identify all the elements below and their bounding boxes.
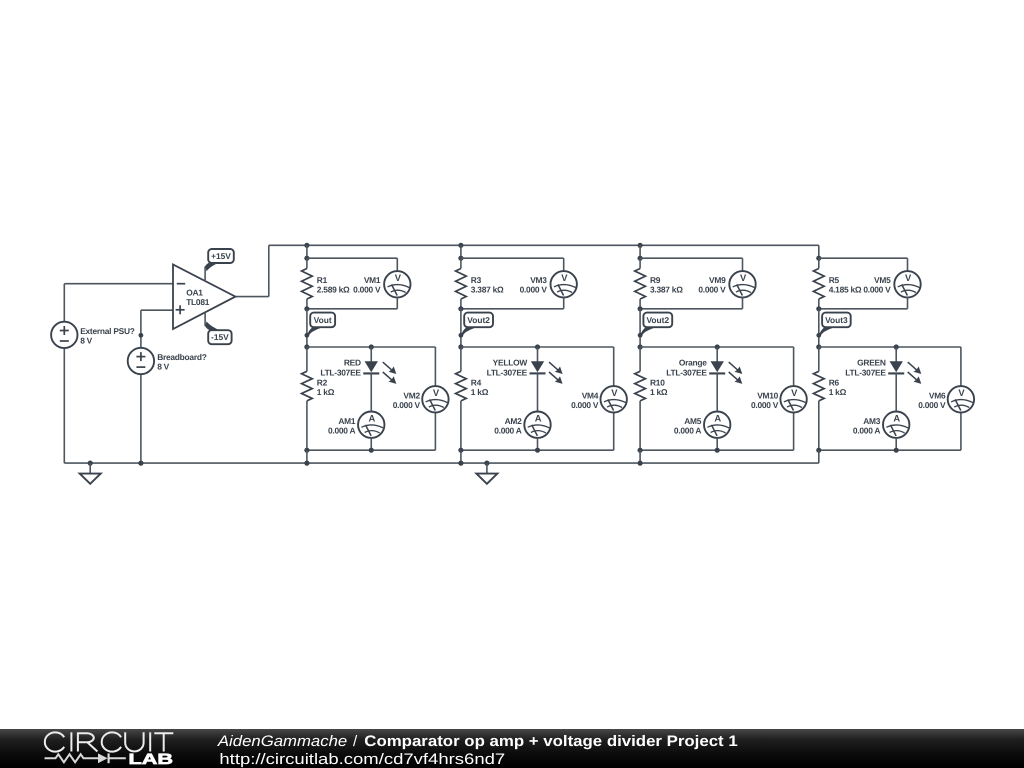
svg-text:V: V [958,387,965,398]
label AM3 [853,416,881,436]
svg-text:0.000 V: 0.000 V [918,400,946,410]
label LED block1 [320,358,361,378]
svg-text:VM10: VM10 [757,390,778,400]
svg-text:TL081: TL081 [186,297,210,307]
label VM10 [751,390,779,410]
resistor R1 [302,258,313,309]
svg-text:GREEN: GREEN [857,358,886,368]
svg-text:4.185 kΩ: 4.185 kΩ [829,285,862,295]
wire breadboard branch lower [140,374,142,463]
label AM2 [494,416,522,436]
logo LAB word [129,751,174,768]
wire block3 vm-loop bottom [638,297,743,311]
svg-text:Comparator op amp + voltage di: Comparator op amp + voltage divider Proj… [364,733,738,750]
label LED block4 [845,358,886,378]
ammeter AM2 [524,412,550,438]
ammeter AM3 [883,412,909,438]
svg-text:LTL-307EE: LTL-307EE [320,367,361,377]
wire block2 row2 top rail [461,344,614,349]
wire block3 row2 bottom rail [638,448,794,453]
label R10 [650,377,668,397]
wire block4 row2 bottom rail [816,448,961,453]
voltmeter VM1 [384,271,410,297]
svg-text:2.589 kΩ: 2.589 kΩ [317,285,350,295]
svg-text:VM2: VM2 [403,390,420,400]
wire block1 vm-loop bottom [304,297,397,311]
wire block1 am bottom [370,438,372,451]
junction dots left [138,461,143,466]
svg-text:A: A [368,413,375,424]
label OA1 [186,288,210,308]
svg-text:Vout: Vout [314,315,332,325]
wire block3 am bottom [716,438,718,451]
svg-text:R4: R4 [471,377,482,387]
svg-text:3.387 kΩ: 3.387 kΩ [650,285,683,295]
svg-text:VM4: VM4 [582,390,599,400]
voltmeter VM9 [729,271,755,297]
svg-text:V: V [740,272,747,283]
svg-text:1 kΩ: 1 kΩ [829,387,847,397]
wire inverting input [64,283,173,285]
resistor R5 [813,258,824,309]
wire block2 mid [459,309,464,347]
svg-text:R10: R10 [650,377,665,387]
svg-text:8 V: 8 V [157,362,169,372]
svg-text:Orange: Orange [679,358,707,368]
label R6 [829,377,847,397]
label VM4 [571,390,599,410]
svg-text:RED: RED [344,358,361,368]
wire block1 row2 bottom rail [304,448,435,453]
wire block3 to bottom rail [638,450,643,466]
svg-text:A: A [893,413,900,424]
svg-text:LTL-307EE: LTL-307EE [845,367,886,377]
svg-text:3.387 kΩ: 3.387 kΩ [471,285,504,295]
LED YELLOW LTL-307EE block2 [530,347,563,412]
wire block4 to bottom rail [818,450,820,463]
svg-text:R5: R5 [829,275,840,285]
wire block4 vm-loop top [819,258,908,271]
title line [217,733,739,750]
svg-text:0.000 A: 0.000 A [494,426,521,436]
wire bottom rail [64,462,819,464]
wire block4 vm-loop bottom [816,297,907,311]
svg-text:V: V [791,387,798,398]
LED GREEN LTL-307EE block4 [888,347,921,412]
label R4 [471,377,489,397]
voltmeter VM5 [894,271,920,297]
wire block1 vm-loop top [307,258,397,271]
wire op-amp output to top rail [235,245,268,296]
node block1 top rail [304,243,309,248]
op-amp V+ pin [204,267,206,282]
logo CIRCUIT word [45,732,174,751]
wire block4 drop [816,245,821,261]
svg-text:Vout2: Vout2 [646,315,669,325]
wire block3 mid [638,309,643,347]
wire block3 row2 top rail [640,344,794,349]
voltmeter VM10 branch [793,347,795,450]
svg-text:8 V: 8 V [80,336,92,346]
label VM2 [393,390,421,410]
svg-text:1 kΩ: 1 kΩ [650,387,668,397]
svg-text:VM9: VM9 [709,275,726,285]
ammeter AM1 [358,412,384,438]
resistor R9 [635,258,646,309]
svg-text:V: V [395,272,402,283]
net flag Vout block1 [307,313,335,337]
wire block2 to bottom rail [458,450,463,466]
svg-text:Vout2: Vout2 [467,315,490,325]
svg-text:0.000 A: 0.000 A [853,426,880,436]
svg-text:R6: R6 [829,377,840,387]
svg-text:0.000 V: 0.000 V [393,400,421,410]
voltmeter VM6 [948,386,974,412]
label R2 [317,377,335,397]
label V2 [157,352,207,372]
wire block1 to bottom rail [304,450,309,466]
svg-text:1 kΩ: 1 kΩ [317,387,335,397]
label VM1 [353,275,381,295]
wire non-inverting input [141,309,173,311]
svg-text:0.000 V: 0.000 V [751,400,779,410]
ammeter AM5 [704,412,730,438]
svg-text:V: V [433,387,440,398]
label AM1 [328,416,356,436]
node block3 row2 left [638,344,643,349]
svg-text:LTL-307EE: LTL-307EE [487,367,528,377]
voltmeter VM2 [422,386,448,412]
wire top rail [269,244,819,246]
power flag -15V [205,321,231,344]
voltage source V1 External PSU [51,322,77,348]
label V1 [80,326,135,346]
svg-text:Breadboard?: Breadboard? [157,352,207,362]
svg-text:VM1: VM1 [364,275,381,285]
wire left rail lower [63,348,65,463]
voltmeter VM3 [551,271,577,297]
svg-text:-15V: -15V [211,332,229,342]
wire block2 drop [458,245,463,261]
svg-text:AM2: AM2 [505,416,523,426]
label AM5 [674,416,702,436]
op-amp V- pin [204,312,206,326]
LED RED LTL-307EE block1 [363,347,396,412]
op-amp OA1 [173,265,235,330]
wire block2 vm-loop bottom [458,297,563,311]
wire block3 drop [638,245,643,261]
svg-text:Vout3: Vout3 [825,315,848,325]
node block2 top rail [458,243,463,248]
svg-text:V: V [561,272,568,283]
wire block4 mid [816,309,821,347]
wire block1 row2 top rail [307,344,436,349]
svg-text:0.000 V: 0.000 V [698,285,726,295]
logo resistor-diode squiggle [45,753,126,763]
svg-text:AM1: AM1 [338,416,356,426]
svg-text:0.000 V: 0.000 V [863,285,891,295]
wire block1 drop [304,245,309,261]
resistor R2 [302,347,313,450]
svg-text:http://circuitlab.com/cd7vf4hr: http://circuitlab.com/cd7vf4hrs6nd7 [219,751,505,768]
svg-text:V: V [905,272,912,283]
wire block1 mid [305,309,310,347]
wire block2 am bottom [537,438,539,451]
wire block4 am bottom [895,438,897,451]
node block4 row2 left [816,344,821,349]
svg-text:AidenGammache: AidenGammache [217,733,347,750]
svg-text:0.000 V: 0.000 V [520,285,548,295]
voltmeter VM6 branch [960,347,962,450]
svg-text:VM5: VM5 [874,275,891,285]
svg-text:A: A [535,413,542,424]
net flag Vout2 block2 [461,313,493,337]
svg-text:YELLOW: YELLOW [493,358,528,368]
resistor R10 [635,347,646,450]
svg-text:R2: R2 [317,377,328,387]
wire left rail upper [63,284,65,322]
svg-text:1 kΩ: 1 kΩ [471,387,489,397]
svg-text:R3: R3 [471,275,482,285]
url line [219,751,505,768]
voltmeter VM4 [601,386,627,412]
resistor R6 [813,347,824,450]
label R9 [650,275,683,295]
label R5 [829,275,862,295]
label VM9 [698,275,726,295]
ground GND1 [80,461,101,484]
voltmeter VM2 branch [434,347,436,450]
node block2 row2 left [458,344,463,349]
svg-text:VM6: VM6 [929,390,946,400]
svg-text:V: V [611,387,618,398]
svg-text:0.000 A: 0.000 A [328,426,355,436]
label LED block2 [487,358,528,378]
node block3 top rail [638,243,643,248]
svg-text:LTL-307EE: LTL-307EE [666,367,707,377]
voltmeter VM4 branch [613,347,615,450]
power flag +15V [205,249,234,271]
label R3 [471,275,504,295]
voltmeter VM10 [780,386,806,412]
svg-text:LAB: LAB [129,751,174,768]
wire block3 vm-loop top [640,258,742,271]
svg-text:R1: R1 [317,275,328,285]
svg-text:External PSU?: External PSU? [80,326,135,336]
svg-text:AM5: AM5 [684,416,702,426]
label R1 [317,275,350,295]
svg-text:0.000 V: 0.000 V [571,400,599,410]
svg-text:A: A [714,413,721,424]
resistor R3 [456,258,467,309]
svg-text:0.000 V: 0.000 V [353,285,381,295]
svg-text:0.000 A: 0.000 A [674,426,701,436]
svg-text:AM3: AM3 [863,416,881,426]
label VM6 [918,390,946,410]
wire block2 vm-loop top [461,258,564,271]
net flag Vout2 block3 [640,313,672,337]
svg-text:OA1: OA1 [186,288,203,298]
ground GND2 [476,461,497,484]
label LED block3 [666,358,707,378]
net flag Vout3 block4 [819,313,851,337]
svg-text:+15V: +15V [211,251,231,261]
node block1 row2 left [304,344,309,349]
wire block2 row2 bottom rail [458,448,613,453]
svg-text:R9: R9 [650,275,661,285]
svg-text:VM3: VM3 [530,275,547,285]
resistor R4 [456,347,467,450]
label VM3 [520,275,548,295]
label VM5 [863,275,891,295]
wire block4 row2 top rail [819,344,961,349]
voltage source V2 Breadboard [128,348,154,374]
LED Orange LTL-307EE block3 [709,347,742,412]
wire breadboard branch upper [139,310,144,348]
